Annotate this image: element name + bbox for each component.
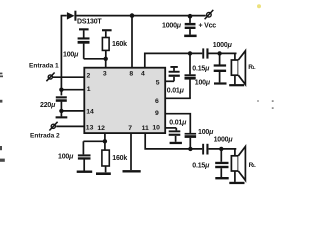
svg-text:+ Vcc: + Vcc xyxy=(199,23,217,30)
svg-text:100μ: 100μ xyxy=(58,153,74,160)
svg-text:160k: 160k xyxy=(112,155,127,162)
svg-text:100μ: 100μ xyxy=(195,79,211,86)
svg-text:100μ: 100μ xyxy=(63,51,79,58)
svg-text:1000μ: 1000μ xyxy=(214,137,234,144)
svg-text:6: 6 xyxy=(155,98,159,105)
svg-text:Entrada 2: Entrada 2 xyxy=(30,133,60,140)
svg-text:100μ: 100μ xyxy=(198,129,214,136)
svg-text:14: 14 xyxy=(86,108,94,115)
svg-text:1000μ: 1000μ xyxy=(213,42,233,49)
svg-text:DS130T: DS130T xyxy=(77,18,102,25)
svg-text:11: 11 xyxy=(142,125,149,132)
svg-text:160k: 160k xyxy=(112,41,127,48)
svg-text:5: 5 xyxy=(156,79,160,86)
svg-text:9: 9 xyxy=(155,110,159,117)
svg-text:4: 4 xyxy=(141,71,145,78)
svg-text:10: 10 xyxy=(152,124,160,131)
svg-text:RL: RL xyxy=(249,162,257,169)
svg-text:12: 12 xyxy=(97,125,105,132)
svg-text:1: 1 xyxy=(87,86,91,93)
svg-text:RL: RL xyxy=(248,64,256,71)
svg-text:1000μ: 1000μ xyxy=(162,22,182,29)
svg-text:3: 3 xyxy=(103,71,107,78)
svg-text:220μ: 220μ xyxy=(40,102,56,109)
svg-text:0.01μ: 0.01μ xyxy=(169,119,187,126)
svg-text:7: 7 xyxy=(128,125,132,132)
svg-text:0.15μ: 0.15μ xyxy=(192,65,210,72)
svg-text:8: 8 xyxy=(129,71,133,78)
svg-text:0.15μ: 0.15μ xyxy=(192,163,210,170)
svg-text:13: 13 xyxy=(86,125,94,132)
svg-text:Entrada 1: Entrada 1 xyxy=(29,62,59,69)
svg-text:0.01μ: 0.01μ xyxy=(167,88,185,95)
svg-text:2: 2 xyxy=(87,73,91,80)
